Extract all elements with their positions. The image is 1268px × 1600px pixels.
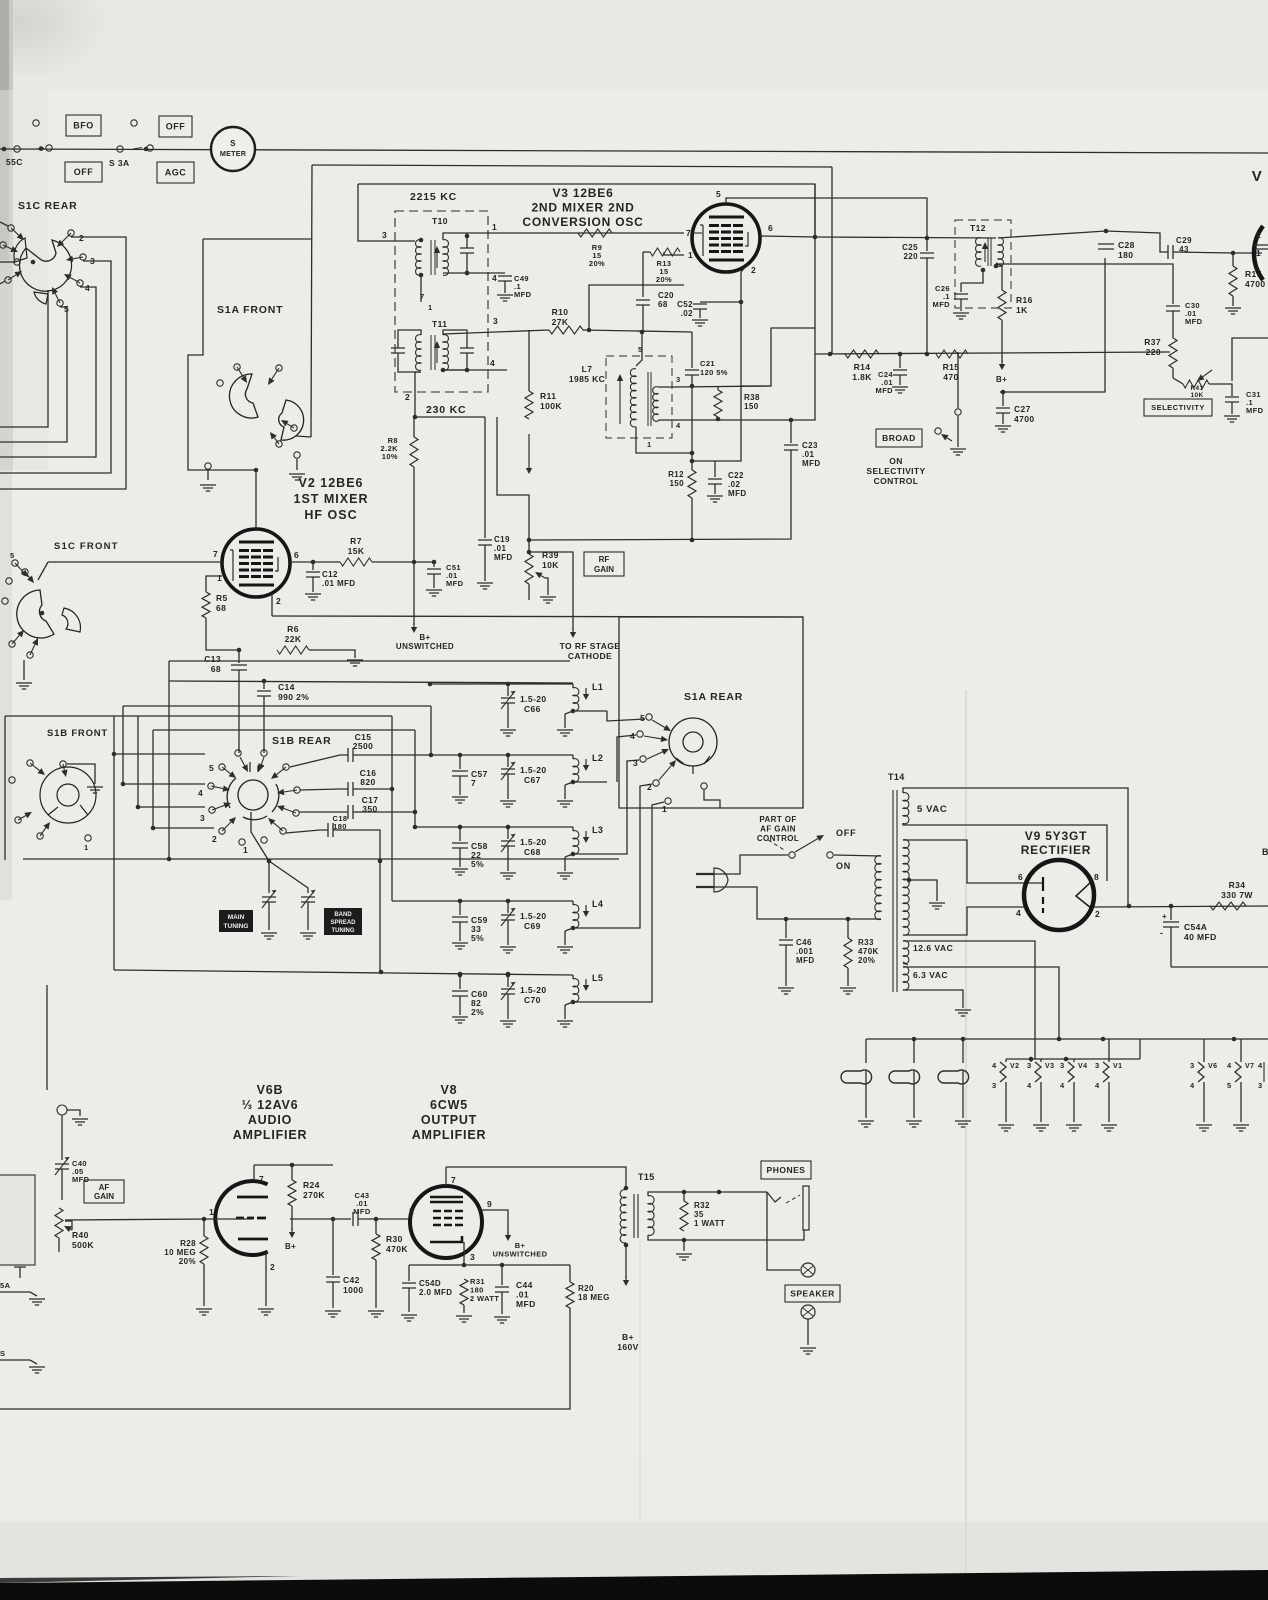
- svg-text:T10: T10: [432, 216, 448, 226]
- svg-text:T12: T12: [970, 223, 986, 233]
- wire B+ unswitched arrow: [413, 562, 415, 625]
- coil L7 primary: [630, 369, 636, 427]
- svg-text:1985 KC: 1985 KC: [569, 374, 605, 384]
- svg-text:1.5-20: 1.5-20: [520, 911, 547, 921]
- wire 230KC to C19: [484, 417, 486, 538]
- svg-text:4: 4: [992, 1061, 997, 1070]
- wire T10 pin3 left: [390, 240, 415, 242]
- svg-text:S: S: [230, 139, 236, 148]
- svg-text:4700: 4700: [1245, 279, 1266, 289]
- svg-text:15K: 15K: [348, 546, 365, 556]
- transformer T10 windings: [416, 240, 421, 276]
- wire left edge stub A: [0, 1292, 37, 1296]
- svg-text:AGC: AGC: [165, 168, 187, 178]
- inductor L3: [572, 827, 574, 831]
- svg-text:C46: C46: [796, 938, 812, 947]
- wire V2 pin6 output: [290, 561, 313, 563]
- capacitor C19: [478, 540, 492, 545]
- resistor R33: [847, 919, 849, 938]
- svg-text:R7: R7: [350, 536, 362, 546]
- svg-text:MFD: MFD: [494, 553, 513, 562]
- trimmer capacitor C66: [506, 682, 511, 687]
- resistor R17: [1229, 266, 1237, 296]
- capacitor C60: [458, 973, 463, 978]
- svg-text:4: 4: [1190, 1081, 1195, 1090]
- rotary switch S1C FRONT rotor: [17, 590, 54, 638]
- svg-text:12.6 VAC: 12.6 VAC: [913, 943, 953, 953]
- wire V3 pin5 top: [726, 198, 927, 238]
- wire R5 to R6 node: [206, 618, 239, 650]
- wire HV center tap ground: [907, 878, 912, 883]
- svg-text:V2: V2: [1010, 1063, 1019, 1070]
- svg-text:HF OSC: HF OSC: [304, 508, 357, 522]
- svg-text:OFF: OFF: [74, 167, 94, 177]
- svg-text:1: 1: [243, 845, 248, 855]
- T14 5VAC winding: [903, 793, 909, 824]
- svg-text:V3: V3: [1045, 1063, 1054, 1070]
- svg-text:SELECTIVITY: SELECTIVITY: [1151, 403, 1205, 412]
- svg-text:1: 1: [662, 804, 667, 814]
- svg-text:R5: R5: [216, 593, 228, 603]
- svg-text:C67: C67: [524, 775, 541, 785]
- svg-text:V: V: [1252, 168, 1263, 185]
- svg-text:S1C REAR: S1C REAR: [18, 200, 78, 212]
- wire R32 ground: [683, 1240, 685, 1251]
- svg-text:C13: C13: [204, 654, 221, 664]
- svg-text:3: 3: [1190, 1061, 1195, 1070]
- wire heater bus 2: [1006, 1058, 1140, 1060]
- svg-text:68: 68: [211, 664, 221, 674]
- capacitor C15 series: [348, 748, 353, 762]
- scan edge black bar: [0, 1570, 1268, 1600]
- svg-text:RF: RF: [599, 555, 610, 564]
- svg-text:5: 5: [640, 713, 645, 723]
- tube V9 5Y3GT: [1024, 860, 1094, 930]
- svg-text:2: 2: [751, 265, 756, 275]
- svg-text:2215 KC: 2215 KC: [410, 191, 457, 203]
- capacitor C59: [458, 899, 463, 904]
- capacitor C31: [1225, 397, 1239, 402]
- terminals S1B REAR left: [219, 764, 225, 770]
- svg-text:4700: 4700: [1014, 414, 1035, 424]
- svg-text:3: 3: [992, 1081, 997, 1090]
- svg-text:10%: 10%: [382, 452, 398, 461]
- switch broad contact: [935, 428, 941, 434]
- svg-text:AUDIO: AUDIO: [248, 1113, 292, 1127]
- terminals S1B FRONT: [60, 761, 66, 767]
- resistor R5: [202, 592, 210, 618]
- wire R10 output to tank: [583, 330, 692, 332]
- heater V3: [1040, 1059, 1042, 1062]
- svg-text:55C: 55C: [6, 157, 23, 167]
- wire R20 to feedback line: [0, 1308, 570, 1409]
- capacitor C54D: [408, 1265, 410, 1281]
- svg-text:S1B FRONT: S1B FRONT: [47, 728, 108, 739]
- svg-text:1.5-20: 1.5-20: [520, 985, 547, 995]
- wire to RF stage cathode: [529, 552, 573, 630]
- svg-text:⅓ 12AV6: ⅓ 12AV6: [242, 1098, 299, 1112]
- svg-text:2%: 2%: [471, 1007, 484, 1017]
- wire 12.6VAC out: [903, 941, 1035, 1059]
- wire R7 to B+ node: [372, 561, 414, 563]
- capacitor at V1 grid: [1255, 245, 1268, 249]
- svg-text:C69: C69: [524, 921, 541, 931]
- svg-text:3: 3: [633, 758, 638, 768]
- wire vertical from AGC bus down to S1A FRONT: [311, 165, 312, 437]
- svg-text:S 3A: S 3A: [109, 158, 130, 168]
- svg-text:4: 4: [1095, 1081, 1100, 1090]
- resistor R20: [569, 1265, 571, 1282]
- inductor L4: [572, 901, 574, 905]
- resistor R38: [717, 386, 719, 390]
- heater V1: [1108, 1039, 1110, 1062]
- svg-text:3: 3: [1027, 1061, 1032, 1070]
- svg-text:1000: 1000: [343, 1285, 364, 1295]
- svg-text:C44: C44: [516, 1280, 533, 1290]
- svg-text:C70: C70: [524, 995, 541, 1005]
- wire V6B cathode: [265, 1252, 267, 1306]
- svg-text:68: 68: [216, 603, 226, 613]
- svg-text:CONTROL: CONTROL: [874, 476, 919, 486]
- capacitor C54A electrolytic: [1170, 906, 1172, 920]
- wire S1B nest lines: [114, 753, 205, 755]
- wire switch to T14 primary: [834, 855, 881, 856]
- wire tuning gang from S1B REAR: [251, 812, 269, 861]
- svg-text:C22: C22: [728, 471, 744, 480]
- terminal 4 of S1C REAR: [77, 280, 83, 286]
- wire 5VAC to V9 filament: [903, 788, 1128, 906]
- wire AGC line corner down: [831, 167, 833, 354]
- wire V9 output pin2: [1094, 906, 1268, 907]
- T14 6.3VAC winding: [903, 967, 909, 990]
- svg-text:230 KC: 230 KC: [426, 404, 466, 416]
- svg-text:SELECTIVITY: SELECTIVITY: [866, 466, 925, 476]
- capacitor C16 series: [348, 782, 353, 796]
- svg-text:330 7W: 330 7W: [1221, 890, 1253, 900]
- capacitor C22: [714, 461, 716, 477]
- svg-text:V1: V1: [1113, 1063, 1122, 1070]
- svg-text:V6: V6: [1208, 1063, 1217, 1070]
- svg-text:350: 350: [362, 804, 377, 814]
- wire plug top to switch: [714, 855, 788, 874]
- svg-text:4: 4: [1016, 908, 1021, 918]
- svg-text:V2 12BE6: V2 12BE6: [299, 476, 364, 490]
- svg-text:20%: 20%: [858, 956, 875, 965]
- wire T11 pin3 right: [443, 330, 549, 334]
- svg-text:T15: T15: [638, 1172, 655, 1182]
- wire T12 bottom to R16: [996, 263, 1002, 290]
- svg-text:40 MFD: 40 MFD: [1184, 932, 1217, 942]
- capacitor C42: [332, 1219, 334, 1275]
- svg-text:3: 3: [1060, 1061, 1065, 1070]
- svg-text:470K: 470K: [386, 1244, 408, 1254]
- svg-text:18 MEG: 18 MEG: [578, 1293, 610, 1302]
- svg-text:AF: AF: [99, 1183, 110, 1192]
- svg-text:2: 2: [270, 1262, 275, 1272]
- svg-text:2: 2: [405, 392, 410, 402]
- transformer T11 windings: [416, 335, 421, 371]
- svg-text:METER: METER: [220, 149, 247, 158]
- dashed box T12: [955, 220, 1011, 308]
- wire T15 primary to B+160V: [625, 1245, 627, 1278]
- resistor R15: [936, 350, 968, 358]
- resistor R34: [1210, 902, 1246, 910]
- label box AGC: [157, 162, 194, 183]
- label box OFF upper: [159, 116, 192, 137]
- wire grid input from S1C FRONT: [48, 561, 222, 563]
- wire left edge stub S1C REAR: [0, 261, 14, 263]
- svg-text:68: 68: [658, 300, 668, 309]
- svg-text:C29: C29: [1176, 236, 1192, 245]
- wire L1 output to S1A REAR term5: [607, 711, 645, 721]
- svg-text:R6: R6: [287, 624, 299, 634]
- capacitor C40 variable: [55, 1164, 69, 1169]
- svg-text:1: 1: [428, 303, 433, 312]
- svg-text:20%: 20%: [179, 1257, 196, 1266]
- capacitor C13: [231, 665, 247, 670]
- svg-text:GAIN: GAIN: [94, 1192, 114, 1201]
- svg-text:OUTPUT: OUTPUT: [421, 1113, 477, 1127]
- svg-text:AF GAIN: AF GAIN: [760, 825, 796, 834]
- transformer T14 core: [893, 790, 897, 992]
- svg-text:150: 150: [669, 479, 684, 488]
- svg-text:120 5%: 120 5%: [700, 368, 728, 377]
- svg-text:OFF: OFF: [166, 122, 186, 132]
- wire plate supply bus: [254, 1164, 333, 1166]
- label box AF GAIN: [84, 1180, 124, 1203]
- svg-text:7: 7: [213, 549, 218, 559]
- svg-text:470: 470: [943, 372, 958, 382]
- wire T15 secondary bottom: [648, 1230, 804, 1240]
- svg-text:1.5-20: 1.5-20: [520, 694, 547, 704]
- label box BAND SPREAD TUNING inverted: [324, 908, 362, 935]
- trimmer capacitor C69: [506, 899, 511, 904]
- svg-text:TUNING: TUNING: [332, 928, 355, 934]
- capacitor C18 series: [328, 823, 333, 837]
- wire S1C FRONT to grid wire: [38, 562, 48, 580]
- terminal speaker 2: [801, 1305, 815, 1319]
- svg-text:GAIN: GAIN: [594, 565, 614, 574]
- heater V7: [1240, 1039, 1242, 1062]
- inductor L5: [572, 975, 574, 979]
- wire T12 secondary to C28 wire: [998, 231, 1106, 238]
- svg-text:UNSWITCHED: UNSWITCHED: [493, 1250, 548, 1259]
- wire V3 cathode to tank tap: [692, 264, 748, 461]
- wire lamp feeds: [865, 1039, 867, 1063]
- meter S-METER: [211, 127, 255, 171]
- svg-text:.001: .001: [796, 947, 813, 956]
- wire rotor to V2 grid: [296, 436, 311, 437]
- svg-text:R41: R41: [1190, 385, 1203, 392]
- resistor R30: [375, 1219, 377, 1234]
- svg-text:220: 220: [903, 252, 918, 261]
- wire R41 to C31: [1209, 384, 1232, 396]
- svg-text:+: +: [1162, 912, 1167, 921]
- svg-text:UNSWITCHED: UNSWITCHED: [396, 642, 454, 651]
- capacitor C58: [458, 825, 463, 830]
- svg-text:C52: C52: [677, 300, 693, 309]
- svg-text:35: 35: [694, 1210, 704, 1219]
- svg-text:B+: B+: [622, 1332, 634, 1342]
- T14 HV winding: [903, 840, 909, 936]
- svg-text:9: 9: [487, 1199, 492, 1209]
- svg-text:C66: C66: [524, 704, 541, 714]
- svg-text:C19: C19: [494, 535, 510, 544]
- wire L7 primary top riser: [636, 332, 642, 366]
- switch S3A contacts: [117, 146, 123, 152]
- svg-text:990 2%: 990 2%: [278, 692, 309, 702]
- capacitor C21: [691, 332, 693, 368]
- wire L5 output to S1A REAR term1: [607, 802, 664, 1002]
- svg-text:V3 12BE6: V3 12BE6: [552, 186, 613, 200]
- svg-text:R28: R28: [180, 1239, 196, 1248]
- svg-text:180: 180: [333, 822, 347, 831]
- svg-text:MFD: MFD: [353, 1207, 371, 1216]
- component box left edge: [0, 1175, 35, 1265]
- wire screen drop to C23: [791, 354, 815, 420]
- svg-text:S: S: [0, 1349, 5, 1358]
- wire AGC bus second: [312, 165, 832, 167]
- wire speaker 2 ground: [807, 1319, 809, 1345]
- wire 12.6 line to heaters: [1030, 1059, 1032, 1062]
- svg-text:R15: R15: [943, 362, 960, 372]
- svg-text:BROAD: BROAD: [882, 433, 916, 443]
- coil L7 secondary: [653, 387, 658, 422]
- wire V8 plate to T15: [446, 1167, 626, 1188]
- resistor R12: [688, 470, 696, 498]
- tube V3 12BE6: [692, 204, 760, 272]
- capacitor C51: [432, 560, 437, 565]
- svg-text:C23: C23: [802, 441, 818, 450]
- wire T10-T11 link: [420, 275, 422, 302]
- svg-text:1: 1: [647, 440, 652, 449]
- svg-text:22K: 22K: [285, 634, 302, 644]
- wire bus lines to trimmer rows: [123, 705, 431, 707]
- svg-text:7: 7: [259, 1174, 264, 1184]
- svg-text:R11: R11: [540, 391, 556, 401]
- tube V6B: [215, 1181, 267, 1255]
- wire T11 pin4 output: [443, 369, 507, 371]
- svg-text:470K: 470K: [858, 947, 879, 956]
- switch OFF ON AF gain: [789, 852, 795, 858]
- resistor R13: [650, 248, 680, 256]
- label box OFF lower: [65, 162, 102, 182]
- wire S1C REAR rotor stem: [47, 290, 49, 311]
- svg-text:V8: V8: [441, 1083, 458, 1097]
- svg-text:SPEAKER: SPEAKER: [790, 1289, 835, 1299]
- capacitor C29 series: [1168, 245, 1173, 259]
- heater V4: [1073, 1059, 1075, 1062]
- capacitor right of T11: [460, 348, 474, 353]
- svg-text:160V: 160V: [617, 1342, 638, 1352]
- wire grid2 node to T12: [815, 237, 996, 238]
- svg-text:3: 3: [470, 1252, 475, 1262]
- resistor R7: [313, 561, 340, 563]
- variable capacitor band spread: [301, 897, 315, 902]
- wire plate supply V3 right: [358, 184, 815, 386]
- dashed box L7: [606, 356, 672, 438]
- wire S1C FRONT stem ground: [23, 660, 25, 680]
- label box SPEAKER: [785, 1285, 840, 1302]
- svg-text:7: 7: [471, 778, 476, 788]
- trimmer capacitor C68: [506, 825, 511, 830]
- wire heater bus 1: [866, 1038, 1268, 1040]
- svg-text:2: 2: [79, 233, 84, 243]
- svg-text:C27: C27: [1014, 404, 1031, 414]
- terminals S1B REAR top: [235, 750, 241, 756]
- capacitor C43 series: [353, 1212, 358, 1226]
- heater V6: [1203, 1039, 1205, 1062]
- svg-text:4: 4: [1258, 1061, 1263, 1070]
- svg-text:ON: ON: [836, 861, 851, 871]
- inductor L2: [572, 755, 574, 759]
- svg-text:BAND: BAND: [334, 912, 352, 918]
- svg-text:6CW5: 6CW5: [430, 1098, 468, 1112]
- resistor R6: [277, 646, 309, 654]
- svg-text:1ST MIXER: 1ST MIXER: [294, 492, 369, 506]
- svg-text:TUNING: TUNING: [224, 923, 249, 930]
- rotary switch S1B REAR rotor: [238, 780, 268, 810]
- resistor R16: [998, 290, 1006, 320]
- svg-text:180: 180: [1118, 250, 1133, 260]
- svg-text:4: 4: [1227, 1061, 1232, 1070]
- svg-text:R16: R16: [1016, 295, 1033, 305]
- svg-text:C20: C20: [658, 291, 674, 300]
- wire plug bottom: [714, 887, 881, 919]
- wire C54A return bus: [1171, 966, 1268, 968]
- wire V2 cathode bus: [271, 594, 273, 616]
- svg-text:R12: R12: [668, 470, 684, 479]
- svg-text:4: 4: [1060, 1081, 1065, 1090]
- svg-text:270K: 270K: [303, 1190, 325, 1200]
- resistor R10: [549, 326, 583, 334]
- svg-text:C68: C68: [524, 847, 541, 857]
- svg-text:MFD: MFD: [1185, 317, 1203, 326]
- svg-text:10K: 10K: [1190, 392, 1203, 399]
- svg-text:5A: 5A: [0, 1281, 11, 1290]
- svg-text:6: 6: [768, 223, 773, 233]
- svg-text:-: -: [1160, 928, 1163, 938]
- svg-text:5%: 5%: [471, 933, 484, 943]
- phone jack: [803, 1186, 809, 1230]
- svg-text:1: 1: [688, 250, 693, 260]
- svg-text:3: 3: [1258, 1081, 1263, 1090]
- rotary switch S1B FRONT body: [40, 767, 96, 823]
- svg-text:2: 2: [647, 782, 652, 792]
- trimmer capacitor C67: [506, 753, 511, 758]
- svg-text:5 VAC: 5 VAC: [917, 804, 947, 815]
- svg-text:4: 4: [676, 421, 681, 430]
- wire R12 bottom: [691, 498, 693, 540]
- svg-text:7: 7: [420, 292, 425, 301]
- wire T15 secondary top: [648, 1192, 767, 1196]
- terminals S1C FRONT: [12, 560, 18, 566]
- svg-text:RECTIFIER: RECTIFIER: [1021, 843, 1092, 857]
- wire S1A FRONT box: [203, 238, 311, 240]
- label box BROAD: [876, 429, 922, 447]
- capacitor C44: [501, 1265, 503, 1285]
- svg-text:S1C FRONT: S1C FRONT: [54, 541, 119, 552]
- svg-text:OFF: OFF: [836, 828, 856, 838]
- svg-text:C12: C12: [322, 570, 338, 579]
- capacitor C23: [790, 420, 792, 443]
- wire C28 to C29: [1106, 231, 1168, 252]
- wire T10 pin1 top right: [443, 233, 490, 240]
- resistor R31: [460, 1279, 468, 1305]
- wire nest from S1C REAR terminals: [0, 237, 126, 489]
- svg-text:V9 5Y3GT: V9 5Y3GT: [1025, 829, 1087, 843]
- label box PHONES: [761, 1161, 811, 1179]
